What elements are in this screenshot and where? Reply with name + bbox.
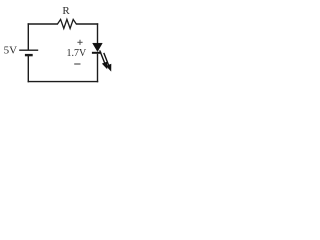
- resistor R zigzag: [58, 19, 77, 28]
- LED light emission arrow 2 (shaft): [104, 53, 110, 67]
- LED D1 triangle (anode): [93, 43, 103, 51]
- wire left vertical (battery - down to bottom corner): [27, 56, 29, 83]
- battery B1 negative plate (short thick): [25, 54, 33, 56]
- label + (LED anode polarity): [77, 40, 82, 45]
- label - (LED cathode polarity): [74, 63, 80, 65]
- LED light emission arrow 1 (head): [102, 62, 107, 70]
- background: [0, 0, 121, 93]
- wire right vertical (top corner down to LED anode): [97, 23, 99, 44]
- LED light emission arrow 2 (head): [106, 64, 111, 72]
- svg-text:5V: 5V: [4, 45, 18, 57]
- LED D1 cathode bar: [92, 52, 101, 54]
- wire bottom horizontal: [28, 81, 99, 83]
- svg-text:R: R: [62, 5, 70, 17]
- wire left vertical (top corner down to battery): [27, 23, 29, 49]
- wire top-left segment (battery + to resistor): [28, 23, 58, 25]
- battery B1 positive plate (long): [19, 49, 38, 51]
- LED light emission arrow 1 (shaft): [100, 50, 106, 65]
- svg-text:1.7V: 1.7V: [67, 48, 88, 59]
- wire top-right segment (resistor to LED anode): [76, 23, 98, 25]
- wire right vertical (LED cathode down to bottom corner): [97, 54, 99, 83]
